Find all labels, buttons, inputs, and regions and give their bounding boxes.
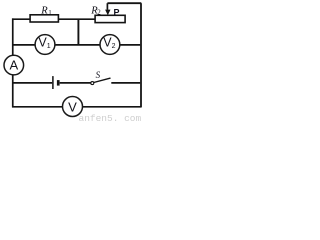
svg-text:2: 2 <box>97 9 101 17</box>
wire bottom row left <box>12 106 63 108</box>
voltmeter V2 circle <box>100 35 120 55</box>
svg-text:P: P <box>114 7 120 17</box>
ammeter A circle <box>4 55 24 75</box>
svg-text:anfen5. com: anfen5. com <box>79 113 142 122</box>
resistor R1 <box>30 15 58 22</box>
wire battery to switch <box>60 82 91 84</box>
switch pivot <box>91 82 94 85</box>
svg-text:S: S <box>96 70 101 80</box>
wire slider top loop <box>107 2 141 4</box>
wire right rail <box>140 3 142 107</box>
battery short thick plate <box>57 80 60 86</box>
resistor R2 (rheostat) <box>95 15 125 22</box>
svg-text:1: 1 <box>48 9 52 17</box>
wire bottom row right <box>82 106 141 108</box>
wire middle row left <box>13 44 35 46</box>
svg-text:A: A <box>10 58 19 73</box>
wire R1 to R2 <box>58 18 95 20</box>
wire slider vertical <box>106 3 108 10</box>
svg-text:V: V <box>68 99 77 114</box>
rheostat slider arrow <box>105 10 110 16</box>
wire middle row center <box>55 44 100 46</box>
svg-text:1: 1 <box>47 43 51 50</box>
voltmeter V circle <box>63 97 83 117</box>
wire battery row left <box>13 82 52 84</box>
battery long plate <box>52 76 54 89</box>
switch lever <box>94 78 111 82</box>
svg-text:2: 2 <box>112 43 116 50</box>
wire middle row right <box>120 44 141 46</box>
wire switch to right rail <box>111 82 140 84</box>
wire left rail lower <box>12 75 14 108</box>
wire top-left horizontal <box>12 18 30 20</box>
wire node junction vertical <box>77 19 79 45</box>
wire left rail upper <box>12 18 14 55</box>
svg-text:R: R <box>40 6 48 17</box>
voltmeter V1 circle <box>35 35 55 55</box>
